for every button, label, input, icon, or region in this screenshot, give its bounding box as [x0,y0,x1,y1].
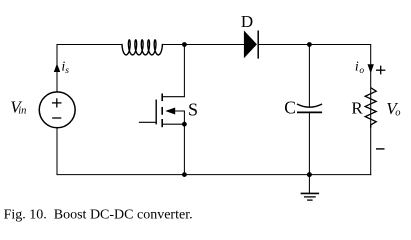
svg-text:s: s [65,66,69,76]
MOSFET channel top bar [161,94,163,102]
MOSFET source stub [162,123,184,125]
svg-text:D: D [241,12,253,31]
output minus sign [376,148,385,150]
MOSFET body arrowhead [165,108,175,115]
wire MOSFET source vertical [183,124,185,174]
node dot: bottom MOSFET junction [182,172,187,177]
wire capacitor top vertical [308,45,310,108]
node dot: inductor/MOSFET junction [182,42,187,47]
svg-text:o: o [359,66,364,76]
MOSFET Q1 gate bar [155,100,157,125]
inductor L coil [122,40,162,55]
wire right vertical [370,45,372,176]
node dot: diode/capacitor junction [307,42,312,47]
ground symbol [301,193,320,200]
capacitor C bottom plate [297,111,322,113]
MOSFET gate lead [139,121,156,123]
svg-text:C: C [284,98,296,118]
svg-text:Fig. 10. Boost DC-DC converte: Fig. 10. Boost DC-DC converter. [4,208,193,223]
wire left vertical lower [56,127,58,174]
wire capacitor bottom vertical [308,112,310,174]
svg-text:o: o [395,107,400,118]
MOSFET drain stub [162,96,185,98]
wire MOSFET drain vertical [183,45,185,97]
diode cathode bar [257,31,259,59]
wire top right (diode to corner) [258,44,371,46]
wire left vertical upper [56,44,58,92]
voltage source plus sign [52,98,62,107]
MOSFET body arrow line [175,111,185,124]
MOSFET channel bottom bar [161,119,163,127]
capacitor C top curved plate [297,104,322,107]
wire top left (source to inductor) [57,44,123,46]
wire ground stem [308,175,310,194]
svg-text:S: S [188,100,198,120]
svg-text:R: R [351,99,363,118]
voltage source minus sign [52,117,61,119]
MOSFET channel middle bar [161,107,163,115]
svg-text:i: i [355,60,359,75]
resistor R zigzag [365,88,376,128]
wire bottom [57,174,372,176]
voltage source Vin circle [39,92,75,128]
svg-text:in: in [18,105,26,116]
current arrow i_s [54,63,60,72]
current arrow i_o [368,64,374,73]
diode D triangle [244,30,257,58]
node dot: bottom capacitor/ground junction [307,172,312,177]
wire top mid (inductor to diode) [162,44,244,46]
output plus sign [376,66,385,75]
node dot: MOSFET source junction [182,122,187,127]
